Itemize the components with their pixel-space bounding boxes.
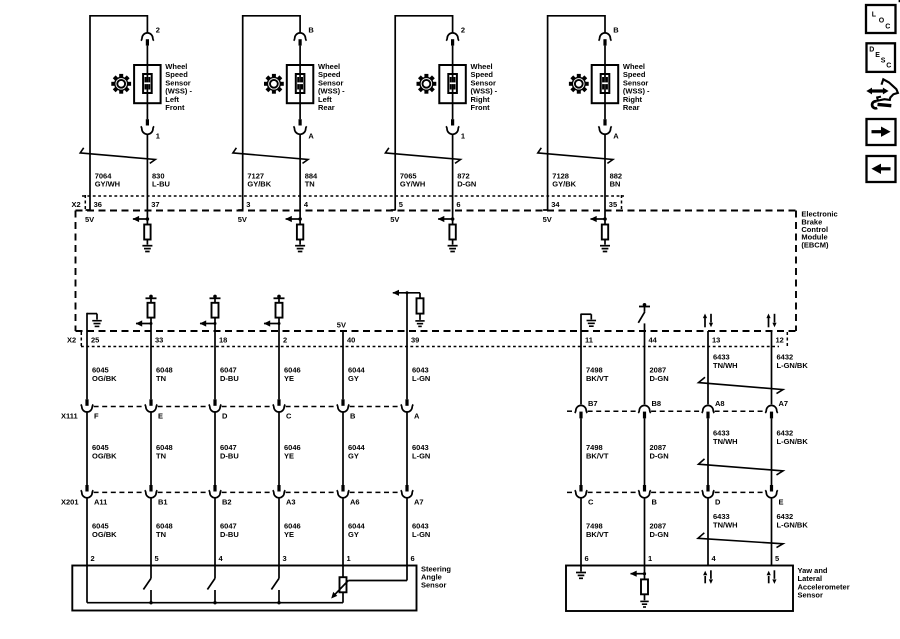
pin label A — [308, 132, 314, 141]
page corner mark — [899, 0, 900, 2]
wire 6045 OG/BK (X111 to X201) — [86, 412, 88, 485]
pin A8 label — [715, 399, 725, 408]
pin A7 label — [779, 399, 789, 408]
wire — [146, 103, 148, 119]
svg-text:L: L — [872, 12, 877, 19]
wheel speed sensor body WSS Left Front — [134, 65, 161, 103]
wire label 6047 D-BU — [220, 443, 239, 460]
connector X201 pin B2 male — [213, 485, 216, 492]
wire label 2087 D-GN — [650, 522, 669, 539]
connector pin A7 female (dome) — [765, 405, 777, 413]
pin B8 label — [652, 399, 662, 408]
icon button LOC — [866, 5, 896, 33]
twisted pair marker WSS Left Front — [80, 148, 155, 164]
pin label A — [613, 132, 619, 141]
svg-text:TN/WH: TN/WH — [713, 437, 738, 446]
connector X201 pin A3 female — [273, 490, 285, 498]
EBCM module box left edge — [75, 211, 77, 332]
svg-text:D-BU: D-BU — [220, 451, 239, 460]
connector terminal A (female) WSS Right Rear — [598, 126, 611, 134]
svg-text:L-GN/BK: L-GN/BK — [777, 361, 809, 370]
icon button forward arrow — [867, 119, 896, 145]
wire 6044 GY (X2 to X111) — [342, 331, 344, 399]
connector terminal B (male pin) — [603, 39, 606, 45]
pin 6 label X2 — [456, 200, 460, 209]
wire 6048 TN (X111 to X201) — [150, 412, 152, 485]
connector X111 label — [61, 411, 78, 420]
steering sensor pin 1 label — [347, 554, 351, 563]
connector X201 pin A6 female — [337, 490, 349, 498]
connector X201 pin A7 male — [405, 485, 408, 492]
svg-text:X111: X111 — [61, 411, 78, 420]
connector terminal 2 (male pin) — [451, 39, 454, 45]
switch contact lower (pin at x=215) — [213, 590, 216, 604]
connector X201 pin A11 female — [81, 490, 93, 498]
svg-text:D-GN: D-GN — [650, 451, 669, 460]
svg-text:Sensor: Sensor — [421, 581, 447, 590]
connector X111 pin A female — [401, 404, 413, 412]
svg-text:13: 13 — [712, 336, 720, 345]
svg-text:BN: BN — [610, 179, 621, 188]
connector X201 pin A6 male — [341, 485, 344, 492]
gear (tone wheel) icon WSS Left Front — [111, 74, 131, 94]
pin label 2 — [156, 26, 160, 35]
svg-text:A8: A8 — [715, 399, 725, 408]
svg-text:5: 5 — [399, 200, 403, 209]
pin label B — [613, 26, 619, 35]
svg-text:GY/WH: GY/WH — [95, 179, 120, 188]
ground (internal) yaw pin 6 — [576, 566, 586, 579]
svg-text:BK/VT: BK/VT — [586, 451, 609, 460]
wire label 6046 YE — [284, 366, 301, 383]
connector X2 row 1 / EBCM top edge dashed line — [76, 210, 797, 212]
pin F label — [94, 411, 99, 420]
svg-text:2: 2 — [91, 554, 95, 563]
connector X111 pin D female — [209, 404, 221, 412]
5V supply label — [390, 215, 399, 224]
switch blade (pin at x=215) — [207, 578, 215, 589]
svg-text:34: 34 — [551, 200, 560, 209]
connector pin A7 male — [770, 412, 773, 419]
connector pin B7 male — [579, 412, 582, 419]
pin label 1 — [461, 132, 465, 141]
svg-text:GY/BK: GY/BK — [552, 179, 576, 188]
wire pin 6 to wiper — [348, 566, 407, 581]
svg-text:B1: B1 — [158, 498, 168, 507]
svg-text:35: 35 — [609, 200, 617, 209]
svg-text:D-BU: D-BU — [220, 530, 239, 539]
svg-text:B2: B2 — [222, 498, 232, 507]
wire 6432 L-GN/BK (to yaw sensor) — [771, 498, 773, 565]
wire 2087 D-GN (middle span) — [644, 418, 646, 485]
sensor element WSS Left Front — [143, 65, 152, 103]
yaw sensor pin 5 label — [775, 554, 779, 563]
connector pin D male — [706, 485, 709, 492]
wire label 6045 OG/BK — [92, 443, 117, 460]
svg-text:37: 37 — [151, 200, 159, 209]
svg-text:2: 2 — [283, 336, 287, 345]
twisted pair marker WSS Right Rear — [538, 148, 613, 164]
svg-text:GY: GY — [348, 451, 359, 460]
wire — [604, 134, 606, 219]
wire 6433 TN/WH (to yaw sensor) — [707, 498, 709, 565]
connector row (yaw harness lower) dashed line — [567, 491, 765, 493]
connector X2 row 1 - harness side dotted line — [82, 195, 624, 197]
ground (internal) pin 25 — [87, 313, 102, 331]
wire - left lead 7128 GY/BK — [543, 15, 548, 211]
svg-text:L-GN: L-GN — [412, 451, 430, 460]
svg-text:L-GN/BK: L-GN/BK — [777, 437, 809, 446]
svg-text:GY: GY — [348, 530, 359, 539]
pin A6 label — [350, 498, 360, 507]
wire label 6048 TN — [156, 522, 173, 539]
5V rail bar above resistor (pin at x=279) — [274, 295, 285, 303]
sensor element WSS Right Front — [448, 65, 457, 103]
connector X111 pin E female — [145, 404, 157, 412]
svg-text:11: 11 — [585, 336, 593, 345]
EBCM module box right edge — [795, 211, 797, 332]
5V feed arrow into pin 35 circuit — [590, 216, 607, 222]
wire label 6047 D-BU — [220, 522, 239, 539]
connector terminal A (male pin) — [603, 119, 606, 125]
pin D label — [222, 411, 228, 420]
potentiometer element pin 1 — [340, 566, 347, 603]
wire label 6046 YE — [284, 522, 301, 539]
pin B1 label — [158, 498, 168, 507]
yaw sensor pin 4 label — [712, 554, 717, 563]
connector terminal 1 (female) WSS Left Front — [141, 126, 154, 134]
pin 36 label X2 — [94, 200, 102, 209]
wire 6432 L-GN/BK (middle span) — [771, 418, 773, 485]
wire 7498 BK/VT (middle span) — [580, 418, 582, 485]
connector pin B8 male — [643, 412, 646, 419]
svg-text:GY/BK: GY/BK — [247, 179, 271, 188]
connector X201 pin B1 male — [149, 485, 152, 492]
pull resistor on pin 6 input — [449, 219, 455, 245]
5V supply label pin 40 — [337, 321, 346, 330]
svg-text:A: A — [414, 411, 420, 420]
svg-text:A11: A11 — [94, 498, 107, 507]
wire - left lead 7065 GY/WH — [391, 15, 396, 211]
pin A3 label — [286, 498, 296, 507]
wire 6432 L-GN/BK (X2 to connector) — [771, 331, 773, 404]
svg-text:YE: YE — [284, 374, 294, 383]
svg-text:Rear: Rear — [318, 103, 335, 112]
svg-text:2: 2 — [461, 26, 465, 35]
svg-text:GY/WH: GY/WH — [400, 179, 425, 188]
svg-text:B8: B8 — [652, 399, 662, 408]
5V rail bar above resistor (pin at x=215) — [210, 295, 221, 303]
connector X111 pin A male — [405, 399, 408, 406]
wire — [452, 103, 454, 119]
connector pin B8 female (dome) — [638, 405, 650, 413]
wire label 7498 BK/VT — [586, 522, 609, 539]
steering sensor pin 4 label — [219, 554, 224, 563]
connector pin D female — [702, 490, 714, 498]
connector pin E female — [765, 490, 777, 498]
wire label 6432 L-GN/BK — [777, 512, 809, 529]
component label WSS Right Front — [471, 62, 498, 112]
connector X111 dashed line — [94, 406, 401, 408]
pin 12 label X2 row 2 — [776, 336, 784, 345]
svg-text:E: E — [779, 498, 784, 507]
ground (internal) pin 4 circuit — [295, 246, 305, 252]
steering angle sensor label — [421, 565, 451, 590]
pull resistor on pin 4 input — [297, 219, 303, 245]
pin E label — [158, 411, 163, 420]
connector X111 pin E male — [149, 399, 152, 406]
svg-text:39: 39 — [411, 336, 419, 345]
wire 6043 L-GN (X201 to steering sensor) — [406, 498, 408, 565]
wire 6433 TN/WH (middle span) — [707, 418, 709, 485]
potentiometer wiper arrow — [331, 581, 348, 599]
svg-text:L-GN/BK: L-GN/BK — [777, 520, 809, 529]
component label WSS Right Rear — [623, 62, 650, 112]
wire label 7064 GY/WH — [95, 171, 120, 188]
connector terminal A (male pin) — [299, 119, 302, 125]
wire - left lead 7127 GY/BK — [238, 15, 243, 211]
steering sensor pin 3 label — [283, 554, 287, 563]
connector terminal B (female) WSS Left Rear — [294, 33, 307, 41]
svg-text:A: A — [308, 132, 314, 141]
connector X201 pin A11 male — [85, 485, 88, 492]
pin 35 label X2 — [609, 200, 617, 209]
connector terminal B (female) WSS Right Rear — [599, 33, 612, 41]
wire label 6048 TN — [156, 366, 173, 383]
5V rail bar above resistor (pin at x=151) — [146, 295, 157, 303]
yaw sensor pin 6 label — [585, 554, 589, 563]
wire label 6048 TN — [156, 443, 173, 460]
svg-text:44: 44 — [649, 336, 658, 345]
wire label 7498 BK/VT — [586, 443, 609, 460]
svg-text:36: 36 — [94, 200, 102, 209]
yaw sensor label — [798, 566, 850, 600]
connector X111 pin B male — [341, 399, 344, 406]
wire — [146, 46, 148, 65]
svg-text:B: B — [652, 498, 658, 507]
connector X2 row 2 left bracket — [80, 332, 82, 348]
common bus wire — [87, 602, 343, 604]
wire 2087 D-GN (to yaw sensor) — [644, 498, 646, 565]
svg-text:1: 1 — [648, 554, 652, 563]
svg-text:Front: Front — [165, 103, 185, 112]
svg-text:1: 1 — [156, 132, 160, 141]
wheel speed sensor body WSS Left Rear — [287, 65, 314, 103]
svg-text:(EBCM): (EBCM) — [801, 240, 829, 249]
pin 39 internal: arrow, resistor, ground — [393, 290, 425, 331]
wire 6044 GY (X111 to X201) — [342, 412, 344, 485]
pin 4 label X2 — [304, 200, 309, 209]
twisted pair marker 6433/6432 upper — [699, 377, 784, 393]
wire - top jumper WSS Right Rear — [548, 15, 605, 17]
connector X2 label — [72, 200, 81, 209]
svg-text:OG/BK: OG/BK — [92, 374, 117, 383]
twisted pair marker 6433/6432 lower — [698, 533, 783, 548]
wire label 6433 TN/WH — [713, 512, 738, 529]
icon arrows and wrench — [866, 79, 898, 108]
svg-text:C: C — [286, 411, 292, 420]
wire - sensor lead upper WSS Right Rear — [604, 15, 606, 34]
signal arrow (pin at x=279) — [264, 320, 281, 326]
pin E label — [779, 498, 784, 507]
connector X201 pin A7 female — [401, 490, 413, 498]
svg-text:12: 12 — [776, 336, 784, 345]
wire label 6043 L-GN — [412, 443, 430, 460]
connector X201 dashed line — [94, 491, 401, 493]
wire - sensor lead upper WSS Right Front — [452, 15, 454, 34]
svg-text:B: B — [308, 26, 314, 35]
5V feed arrow into pin 37 circuit — [133, 216, 150, 222]
connector terminal A (female) WSS Left Rear — [294, 126, 307, 134]
svg-text:YE: YE — [284, 530, 294, 539]
svg-text:D: D — [715, 498, 721, 507]
wire 6046 YE (X111 to X201) — [278, 412, 280, 485]
connector X2 left bracket — [84, 195, 86, 210]
pin 33 label X2 row 2 — [155, 336, 163, 345]
svg-text:18: 18 — [219, 336, 227, 345]
switch blade (pin at x=279) — [271, 578, 279, 589]
svg-text:A6: A6 — [350, 498, 360, 507]
switch contact upper (pin at x=215) — [214, 566, 216, 579]
component label WSS Left Rear — [318, 62, 345, 112]
pin C label — [588, 498, 594, 507]
svg-text:C: C — [588, 498, 594, 507]
pin C label — [286, 411, 292, 420]
svg-text:L-GN: L-GN — [412, 530, 430, 539]
wire 6045 OG/BK (X201 to steering sensor) — [86, 498, 88, 565]
wire 6043 L-GN (X2 to X111) — [406, 331, 408, 399]
connector pin B male — [643, 485, 646, 492]
wire — [299, 103, 301, 119]
wheel speed sensor body WSS Right Rear — [592, 65, 619, 103]
svg-text:25: 25 — [91, 336, 99, 345]
pin B label — [652, 498, 658, 507]
connector terminal B (male pin) — [299, 39, 302, 45]
svg-text:1: 1 — [461, 132, 465, 141]
wire 6048 TN (X2 to X111) — [150, 331, 152, 399]
connector X201 label — [61, 498, 79, 507]
connector row (yaw harness upper) dashed line — [567, 410, 765, 412]
svg-text:3: 3 — [246, 200, 250, 209]
wire label 2087 D-GN — [650, 366, 669, 383]
5V supply label — [238, 215, 247, 224]
wire - top jumper WSS Right Front — [395, 15, 452, 17]
svg-text:L-BU: L-BU — [152, 179, 170, 188]
pin 37 label X2 — [151, 200, 159, 209]
connector terminal 1 (female) WSS Right Front — [446, 126, 459, 134]
pin label B — [308, 26, 314, 35]
svg-text:C: C — [885, 24, 890, 31]
pin label 2 — [461, 26, 465, 35]
connector X2 right bracket — [621, 195, 623, 210]
connector X111 pin C female — [273, 404, 285, 412]
yaw and lateral accelerometer sensor box — [566, 566, 793, 612]
connector X111 pin B female — [337, 404, 349, 412]
5V supply label — [85, 215, 94, 224]
pin B2 label — [222, 498, 232, 507]
wire — [452, 46, 454, 65]
wire - sensor lead upper WSS Left Rear — [299, 15, 301, 34]
svg-text:D-GN: D-GN — [457, 179, 476, 188]
wire pin 2 to common bus — [86, 566, 88, 603]
connector pin C male — [579, 485, 582, 492]
svg-text:D: D — [222, 411, 228, 420]
yaw pin 1 internal arrow — [630, 571, 646, 577]
svg-text:Rear: Rear — [623, 103, 640, 112]
wire label 6044 GY — [348, 443, 366, 460]
pin 18 label X2 row 2 — [219, 336, 227, 345]
connector X201 pin B1 female — [145, 490, 157, 498]
wire 6048 TN (X201 to steering sensor) — [150, 498, 152, 565]
wire label 872 D-GN — [457, 171, 476, 188]
pull-up resistor (pin at x=151) — [148, 303, 155, 331]
wire 6047 D-BU (X111 to X201) — [214, 412, 216, 485]
svg-text:A7: A7 — [779, 399, 789, 408]
wire 6043 L-GN (X111 to X201) — [406, 412, 408, 485]
wire label 6045 OG/BK — [92, 522, 117, 539]
wire label 6043 L-GN — [412, 522, 430, 539]
ground (internal) pin 6 circuit — [448, 246, 458, 252]
signal arrow (pin at x=151) — [136, 320, 153, 326]
pull resistor on pin 35 input — [602, 219, 608, 245]
EBCM label — [801, 210, 837, 250]
switch contact upper (pin at x=279) — [278, 566, 280, 579]
svg-text:BK/VT: BK/VT — [586, 374, 609, 383]
pin 11 label X2 row 2 — [585, 336, 593, 345]
svg-text:6: 6 — [585, 554, 589, 563]
svg-text:O: O — [879, 18, 885, 25]
5V supply label — [543, 215, 552, 224]
connector X201 pin B2 female — [209, 490, 221, 498]
svg-text:5V: 5V — [390, 215, 399, 224]
pin 13 label X2 row 2 — [712, 336, 720, 345]
wire - top jumper WSS Left Front — [90, 15, 147, 17]
ground (internal) pin 37 circuit — [142, 246, 152, 252]
5V feed arrow into pin 4 circuit — [285, 216, 302, 222]
svg-text:B7: B7 — [588, 399, 598, 408]
connector pin A8 female (dome) — [702, 405, 714, 413]
wire label 6044 GY — [348, 366, 366, 383]
svg-text:Front: Front — [471, 103, 491, 112]
wire 7498 BK/VT (to yaw sensor) — [580, 498, 582, 565]
wire - left lead 7064 GY/WH — [86, 15, 91, 211]
twisted pair marker 6433/6432 middle — [699, 459, 784, 475]
svg-text:TN/WH: TN/WH — [713, 520, 738, 529]
svg-text:D-GN: D-GN — [650, 530, 669, 539]
switch blade (pin at x=151) — [143, 578, 151, 589]
svg-text:33: 33 — [155, 336, 163, 345]
wire 6046 YE (X201 to steering sensor) — [278, 498, 280, 565]
pin 40 label X2 row 2 — [347, 336, 355, 345]
wire label 6433 TN/WH — [713, 353, 738, 370]
pin 34 label X2 — [551, 200, 560, 209]
connector X201 pin A3 male — [277, 485, 280, 492]
steering angle sensor box — [72, 566, 416, 611]
twisted pair marker WSS Right Front — [385, 148, 460, 164]
wire 6045 OG/BK (X2 to X111) — [86, 331, 88, 399]
switch contact upper (pin at x=151) — [150, 566, 152, 579]
wire label 882 BN — [610, 171, 623, 188]
svg-text:B: B — [613, 26, 619, 35]
svg-text:OG/BK: OG/BK — [92, 530, 117, 539]
connector X111 pin F male — [85, 399, 88, 406]
pin 25 label X2 row 2 — [91, 336, 99, 345]
svg-text:5V: 5V — [85, 215, 94, 224]
component label WSS Left Front — [165, 62, 192, 112]
connector X111 pin C male — [277, 399, 280, 406]
serial data arrows yaw (pin at x=708) — [703, 570, 713, 584]
gear (tone wheel) icon WSS Left Rear — [264, 74, 284, 94]
